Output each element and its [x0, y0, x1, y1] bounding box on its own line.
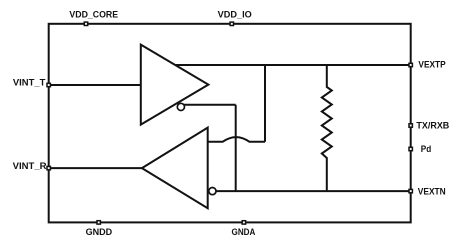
wire driver inverting output vertical to VEXTN net	[235, 105, 237, 191]
chip outline	[49, 24, 411, 223]
op-amp U2 receiver	[142, 128, 208, 209]
wire receiver positive input with crossover hop	[208, 137, 265, 142]
wire VINT_T to driver input	[49, 84, 141, 86]
pin square TX/RXB	[409, 124, 412, 127]
pin square VDD_IO	[230, 22, 233, 25]
svg-text:VINT_R: VINT_R	[13, 161, 48, 171]
svg-text:GNDA: GNDA	[232, 227, 256, 237]
svg-text:GNDD: GNDD	[86, 227, 113, 237]
inverter bubble on U1 inverting output	[177, 103, 184, 110]
pin square VINT_T	[47, 83, 50, 86]
svg-text:VINT_T: VINT_T	[13, 78, 46, 88]
wire receiver positive input vertical to VEXTP net	[264, 65, 266, 142]
svg-text:Pd: Pd	[421, 144, 432, 154]
pin square VEXTP	[409, 63, 412, 66]
wire receiver output to VINT_R	[49, 167, 142, 169]
wire VEXTN net horizontal	[216, 190, 411, 192]
pin square VDD_CORE	[84, 22, 87, 25]
pin square GNDD	[97, 221, 100, 224]
svg-text:VDD_IO: VDD_IO	[218, 9, 252, 19]
svg-text:TX/RXB: TX/RXB	[416, 120, 449, 130]
resistor R termination between VEXTP and VEXTN	[322, 65, 332, 191]
svg-text:VEXTP: VEXTP	[418, 60, 445, 70]
pin square VINT_R	[47, 166, 50, 169]
op-amp U1 transmit driver	[141, 45, 209, 125]
wire driver non-inverting output to VEXTP	[173, 64, 411, 66]
svg-text:VDD_CORE: VDD_CORE	[69, 9, 118, 19]
pin square GNDA	[242, 221, 245, 224]
pin square Pd	[409, 147, 412, 150]
pin square VEXTN	[409, 189, 412, 192]
inverter bubble on U2 inverting input	[209, 188, 216, 195]
wire driver inverting output horizontal	[184, 104, 236, 106]
svg-text:VEXTN: VEXTN	[418, 186, 446, 196]
